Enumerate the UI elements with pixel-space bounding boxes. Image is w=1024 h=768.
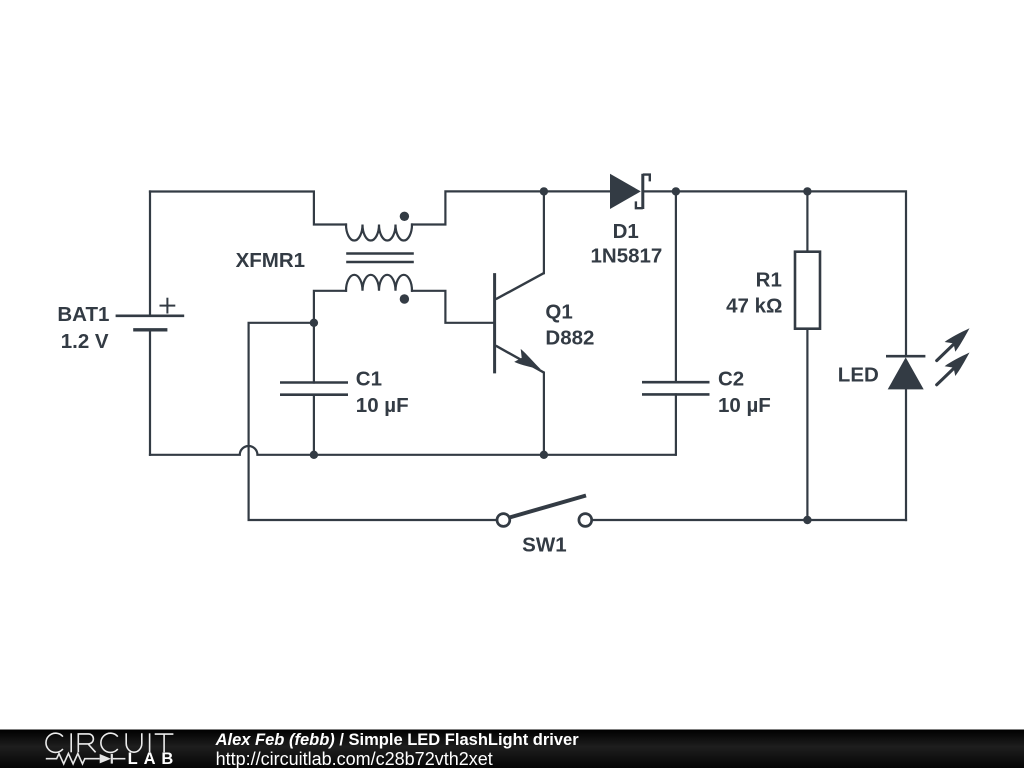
svg-text:BAT1: BAT1 (57, 303, 109, 326)
wire: BAT1 positive lead (149, 192, 151, 316)
svg-text:47 kΩ: 47 kΩ (726, 294, 782, 317)
capacitor C2 (642, 382, 710, 394)
CircuitLab logo: resistor-diode glyph (46, 754, 126, 764)
CircuitLab logo: CIRCUIT (46, 733, 173, 752)
switch SW1 (497, 496, 592, 527)
transformer XFMR1 primary winding (346, 225, 412, 241)
svg-text:C1: C1 (356, 368, 382, 391)
wire: C1 bottom to bottom rail (313, 395, 315, 455)
XFMR1 primary phase dot (400, 212, 409, 221)
svg-text:XFMR1: XFMR1 (236, 249, 305, 272)
XFMR1 secondary phase dot (400, 294, 409, 303)
svg-text:Q1: Q1 (545, 301, 572, 324)
wire: top rail BAT1+ to XFMR1 primary (150, 192, 346, 225)
wire: C2 bottom lead (675, 394, 677, 454)
wire: XFMR1 secondary left to node A (314, 291, 346, 383)
wire: top rail to LED cathode (807, 191, 906, 356)
wire: bottom rail with hop over SW1 branch (150, 446, 675, 455)
LED (886, 356, 925, 389)
node A junction (310, 319, 318, 327)
transformer XFMR1 secondary winding (346, 275, 412, 291)
transformer XFMR1 core (346, 254, 414, 263)
svg-text:R1: R1 (756, 268, 782, 291)
wire: XFMR1 secondary right to Q1 base (412, 291, 493, 323)
node: R1 switch rail junction (803, 516, 811, 524)
node: C1 bottom rail junction (310, 451, 318, 459)
svg-text:1.2 V: 1.2 V (61, 330, 109, 353)
svg-text:D882: D882 (545, 326, 594, 349)
diode D1 1N5817 (610, 174, 650, 209)
svg-text:LAB: LAB (128, 750, 180, 768)
wire: LED anode to switch rail (905, 389, 907, 520)
wire: BAT1 negative lead (149, 331, 151, 455)
node: D1/C2 junction (672, 187, 680, 195)
wire: C2 top lead (675, 191, 677, 382)
node: Q1 emitter bottom rail junction (540, 451, 548, 459)
wire: R1 top lead (806, 191, 808, 251)
resistor R1 (795, 252, 820, 329)
node: top rail R1 junction (803, 187, 811, 195)
svg-text:Alex Feb (febb) / Simple LED F: Alex Feb (febb) / Simple LED FlashLight … (215, 731, 580, 749)
footer bar (0, 730, 1024, 768)
svg-text:1N5817: 1N5817 (590, 245, 662, 268)
svg-text:D1: D1 (613, 220, 639, 243)
battery BAT1 (116, 298, 185, 330)
node: Q1 collector junction (540, 187, 548, 195)
svg-text:10 µF: 10 µF (356, 394, 409, 417)
svg-text:C2: C2 (718, 367, 744, 390)
wire: D1 cathode to R1 (644, 190, 808, 192)
wire: Q1 collector to top rail (543, 191, 545, 273)
transistor Q1 D882 (495, 273, 544, 373)
svg-text:SW1: SW1 (522, 534, 566, 557)
svg-text:LED: LED (838, 364, 879, 387)
svg-text:10 µF: 10 µF (718, 394, 771, 417)
wire: Q1 emitter to bottom rail (543, 373, 545, 455)
wire: SW1 to bottom right rail (593, 519, 906, 521)
LED light arrows (937, 328, 970, 385)
svg-text:http://circuitlab.com/c28b72vt: http://circuitlab.com/c28b72vth2xet (216, 749, 493, 768)
capacitor C1 (280, 383, 348, 395)
wire: R1 bottom lead (806, 329, 808, 520)
wire: node A to SW1 (249, 323, 496, 520)
wire: XFMR1 primary to D1 anode (412, 191, 610, 224)
